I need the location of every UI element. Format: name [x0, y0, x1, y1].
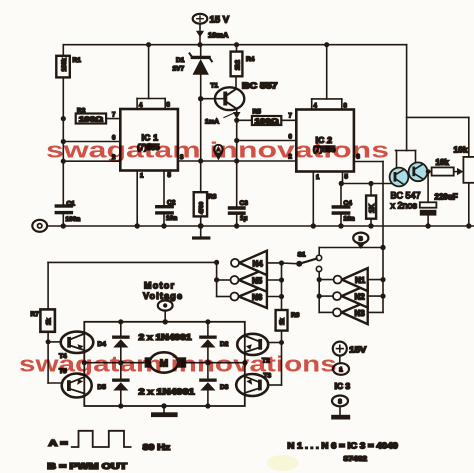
svg-text:C2: C2 — [167, 200, 176, 207]
capacitor C3 — [228, 206, 246, 226]
inverter N1 — [319, 268, 383, 291]
svg-text:1k: 1k — [280, 318, 286, 325]
diode D4 — [112, 322, 130, 379]
test point B — [353, 233, 368, 249]
svg-text:4700: 4700 — [199, 202, 205, 214]
wire wiper arrow to pot — [454, 168, 464, 175]
transistor T3 — [236, 374, 268, 396]
transistor Q2 BC547 — [409, 162, 432, 181]
svg-text:2k2: 2k2 — [236, 59, 242, 70]
svg-text:87462: 87462 — [344, 456, 368, 463]
resistor R7 — [40, 309, 55, 331]
svg-text:R7: R7 — [31, 311, 40, 318]
transistor Q1 BC547 — [390, 168, 409, 187]
ground symbol bridge — [151, 406, 178, 417]
svg-text:2 x 1N4001: 2 x 1N4001 — [139, 333, 193, 342]
svg-text:2V7: 2V7 — [173, 66, 185, 73]
wire R1 down left column — [62, 77, 64, 204]
svg-text:IC 3: IC 3 — [335, 381, 351, 391]
svg-text:100Ω: 100Ω — [79, 115, 103, 124]
svg-text:R5: R5 — [253, 109, 262, 116]
svg-text:C4: C4 — [344, 200, 353, 207]
svg-text:N6: N6 — [252, 293, 263, 302]
svg-text:B: B — [359, 236, 363, 242]
supply +15V top — [193, 14, 208, 45]
svg-text:1k: 1k — [47, 318, 53, 325]
svg-text:swagatam innovations: swagatam innovations — [46, 138, 389, 163]
op-amp IC1 box 7555 — [120, 45, 178, 171]
svg-text:C1: C1 — [67, 200, 76, 207]
ground rail bottom of top section — [47, 225, 474, 227]
svg-text:1mA: 1mA — [205, 119, 219, 126]
inverter N6 — [217, 285, 282, 308]
svg-text:D1: D1 — [176, 57, 185, 64]
wire R7 feed column — [47, 262, 49, 309]
resistor R4 — [231, 45, 243, 77]
inverter N4 — [231, 251, 282, 275]
resistor R6 — [276, 310, 288, 331]
svg-text:B = PWM OUT: B = PWM OUT — [47, 462, 127, 471]
resistor R1 — [56, 45, 70, 78]
transistor T4 — [61, 332, 94, 353]
svg-text:swagatam innovations.: swagatam innovations. — [19, 352, 345, 377]
wire pin1 IC1 — [136, 171, 138, 227]
wire collector bracket Q1 Q2 — [396, 151, 416, 169]
pin 8 IC3 — [332, 396, 348, 407]
svg-text:N2: N2 — [355, 293, 366, 302]
svg-text:10k: 10k — [436, 158, 450, 167]
svg-text:BC 557: BC 557 — [242, 82, 278, 91]
wire pin1 IC2 — [312, 172, 314, 227]
capacitor C2 — [155, 205, 174, 226]
svg-text:R1: R1 — [73, 57, 82, 64]
transistor T2 — [237, 334, 268, 355]
test point A — [214, 145, 223, 161]
motor M — [145, 352, 187, 372]
transistor T5 — [62, 374, 92, 398]
diode D1 zener 2V7 — [190, 45, 212, 161]
svg-text:D5: D5 — [98, 384, 107, 391]
svg-text:Voltage: Voltage — [143, 291, 182, 301]
node T1 base — [198, 96, 203, 101]
wire R2 to pin7 — [106, 118, 120, 120]
svg-text:10mA: 10mA — [208, 31, 229, 40]
node top rail junctions — [146, 42, 329, 47]
svg-text:180k: 180k — [62, 57, 68, 71]
diode D3 — [199, 379, 217, 407]
svg-text:S1: S1 — [298, 252, 306, 259]
ground symbol main — [192, 226, 210, 240]
capacitor 220uF — [420, 169, 437, 226]
svg-text:N 1 . . . N 6 = IC 3 = 4049: N 1 . . . N 6 = IC 3 = 4049 — [287, 441, 398, 451]
svg-text:10n: 10n — [344, 216, 355, 223]
svg-text:R4: R4 — [246, 56, 255, 63]
svg-text:N3: N3 — [355, 309, 366, 318]
pin 1 IC3 — [333, 363, 349, 375]
wire +V branch right — [407, 45, 469, 157]
wire N1-N3 input rail — [382, 248, 384, 313]
diode D5 — [112, 379, 130, 407]
wire motor row — [84, 362, 245, 364]
terminal motor voltage — [158, 300, 173, 321]
ground IC3 — [331, 406, 350, 419]
svg-text:Motor: Motor — [144, 281, 174, 291]
diode D2 — [199, 322, 217, 379]
svg-text:8: 8 — [338, 398, 342, 405]
svg-text:x 2nos: x 2nos — [391, 201, 418, 211]
resistor 1K — [366, 184, 376, 227]
svg-text:15V: 15V — [349, 344, 366, 354]
svg-text:100Ω: 100Ω — [255, 117, 279, 126]
wire R6 to T2 T3 bases — [268, 331, 282, 385]
inverter N2 — [319, 285, 383, 308]
svg-text:N4: N4 — [253, 259, 264, 268]
svg-text:R6: R6 — [291, 312, 300, 319]
wire N4-N6 input rail — [281, 263, 283, 310]
svg-text:80 Hz: 80 Hz — [143, 443, 171, 452]
svg-text:A =: A = — [49, 439, 69, 448]
wire B row — [319, 247, 383, 249]
wire pin3 IC2 out — [354, 162, 383, 248]
resistor R3 — [194, 161, 207, 226]
transistor T1 BC557 — [201, 76, 245, 110]
terminal +15V IC3 — [333, 342, 347, 364]
svg-text:D4: D4 — [98, 341, 107, 348]
wire T1 collector with 1mA arrow — [224, 109, 241, 206]
inverter N3 — [319, 301, 383, 324]
op-amp IC2 box 7555 — [296, 45, 354, 172]
wire top supply rail — [63, 44, 406, 46]
highlight smudge — [267, 455, 299, 471]
wire IC1 pin3 to IC2 pin2 — [178, 160, 296, 162]
svg-text:10n: 10n — [166, 215, 177, 222]
wire pin5 IC2 to node — [341, 172, 392, 184]
svg-text:10k: 10k — [454, 145, 468, 155]
wire R7 to T4 T5 bases — [48, 332, 62, 383]
terminal 0V left — [32, 220, 47, 232]
wire pin6 IC1 — [63, 141, 120, 143]
svg-text:100n: 100n — [66, 216, 81, 223]
svg-text:T1: T1 — [211, 83, 219, 90]
svg-text:D2: D2 — [220, 341, 229, 348]
wire pin5 IC1 — [163, 171, 165, 206]
svg-text:N5: N5 — [252, 276, 263, 285]
inverter N5 — [217, 268, 282, 291]
wire pin6 IC2 — [237, 140, 297, 142]
svg-text:BC 547: BC 547 — [391, 191, 421, 201]
wire long feed to N4 row — [48, 261, 217, 263]
svg-text:C3: C3 — [240, 200, 249, 207]
svg-text:220uF: 220uF — [435, 193, 458, 202]
svg-text:R3: R3 — [208, 194, 217, 201]
H-bridge frame — [84, 322, 245, 406]
svg-text:D3: D3 — [220, 384, 229, 391]
svg-text:15 V: 15 V — [210, 15, 230, 26]
capacitor C4 — [332, 184, 351, 227]
svg-text:2 x 1N4001: 2 x 1N4001 — [139, 388, 196, 397]
wire pin2 IC1 — [63, 160, 120, 162]
svg-text:1µ: 1µ — [240, 215, 248, 222]
wire N4-N6 output rail — [216, 262, 218, 296]
svg-text:N1: N1 — [355, 276, 366, 285]
svg-text:1K: 1K — [369, 204, 376, 213]
capacitor C1 — [55, 204, 74, 226]
